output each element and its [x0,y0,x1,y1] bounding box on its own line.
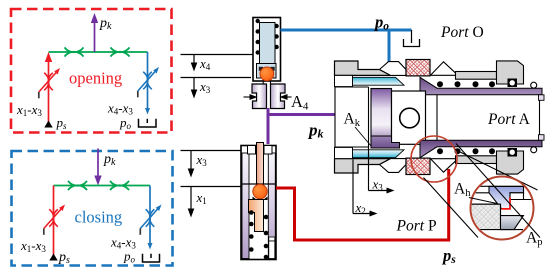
ref line x1 (bottom valve) [181,186,243,188]
housing block far right top [497,61,524,84]
wire purple pk down-arrow (closing) [97,149,99,179]
source triangle ps (closing) [49,254,57,261]
svg-text:x2: x2 [355,200,366,216]
purple band bottom with wedge [420,140,542,158]
bore top line [335,87,369,147]
housing arm bottom-right [456,156,497,164]
ball top right [531,82,537,88]
white band left top [335,75,353,86]
top valve housing [253,18,281,82]
wire blue po branch (closing) [149,186,151,246]
tank symbol (closing) [143,254,160,262]
leader to Ap across magnifier [456,144,540,238]
svg-text:closing: closing [75,208,123,227]
A4 arrows [244,96,251,98]
bottom valve pin rod [257,143,264,185]
bottom valve top plugs [248,146,256,155]
wire green manifold (opening) [49,51,148,53]
mag seat step lines [500,204,502,215]
svg-text:pk: pk [99,16,112,32]
housing arm top-right [456,72,497,80]
ball bottom right [531,147,537,153]
zoom cone tangent lower [424,178,479,238]
retainer square bottom [508,148,518,157]
bottom valve mid line [242,183,275,185]
svg-text:x3: x3 [196,152,208,168]
svg-text:x1-x3: x1-x3 [20,238,46,254]
svg-text:po: po [373,13,389,33]
svg-text:A4: A4 [291,92,309,113]
cup shoulder marks [259,67,263,71]
top valve ball [260,67,274,81]
housing gray bottom-left [335,159,391,173]
ref x3 (main) [368,147,370,191]
seal crosshatch top [406,60,430,76]
mag seat line right [524,199,534,201]
white band left bottom [335,147,353,158]
mag poppet tip blue funnel [489,186,524,208]
bottom valve left wall [242,153,249,259]
spring dots top (main) [437,81,495,87]
svg-text:Ah: Ah [454,181,471,200]
orifice (fixed) green right (opening) [111,47,130,56]
tank symbol at po [411,30,413,39]
seat chamfer white top [380,62,407,76]
mag step white block [510,193,524,200]
bottom valve ball [253,184,267,198]
svg-text:x1-x3: x1-x3 [16,102,42,118]
svg-text:pk: pk [103,152,116,168]
svg-text:x1: x1 [196,190,207,206]
main body left edge [334,62,336,173]
cyan strip top [353,77,405,85]
housing block far right bottom [497,151,524,174]
bottom valve spring dots [249,210,268,259]
band right step top [539,95,545,101]
bore wall line [368,87,370,147]
bottom valve housing shell [241,146,276,260]
spring dots bottom (main) [437,148,495,154]
seat chamfer white bottom [380,159,407,173]
bottom valve right wall lower white [269,241,275,259]
svg-text:ps: ps [58,250,70,266]
wire blue po branch (opening) [147,52,149,110]
poppet stem purple column [371,89,392,148]
purple band top with wedge [420,77,542,95]
ref line x3 (bottom valve) [181,150,243,152]
svg-text:ps: ps [441,246,456,266]
band right step bottom [539,135,545,141]
mag gray wedge [501,216,524,230]
throat walls [263,78,270,84]
leader Ak [355,127,372,147]
variable orifice blue (closing) [140,208,158,229]
housing gray top-left [335,61,391,75]
bottom valve right wall break [269,237,275,241]
ref line x3 (top valve) [181,77,252,79]
poppet circle hole [400,108,420,128]
chamfer triangle right of seal bottom [431,159,459,173]
svg-text:opening: opening [69,69,122,88]
leader Ah [469,198,497,204]
variable orifice blue (opening) [138,71,156,92]
svg-text:Port A: Port A [487,111,531,128]
top valve chamber [260,23,276,66]
mag top band [470,186,524,193]
ref x2 (main) [352,160,354,214]
orifice (fixed) green left (opening) [65,47,84,56]
bottom valve right wall [268,153,275,259]
orifice (fixed) green right (closing) [110,181,129,190]
svg-text:x3: x3 [372,177,384,193]
wire blue po thick [281,29,412,32]
svg-text:Ap: Ap [526,230,542,249]
small red circle on valve [411,136,457,182]
seat block right (A4) [271,84,286,109]
svg-text:Ak: Ak [344,111,361,130]
big magnifier circle [471,177,534,240]
Port A left boundary [436,95,438,140]
wire green manifold (closing) [54,185,151,187]
svg-text:Port P: Port P [396,218,437,235]
orifice (fixed) green left (closing) [68,181,87,190]
cyan strip bottom [353,150,405,158]
seat block left (A4) [252,84,267,109]
closing dashed frame [12,151,173,266]
bottom valve plunger [249,200,264,232]
svg-text:po: po [119,115,132,131]
wire purple pk thick [267,108,270,144]
mag seat line left [470,203,501,205]
tank symbol (opening) [139,119,157,127]
zoom cone tangent upper [455,150,538,191]
wire red ps thick [276,169,449,240]
wire red ps branch (opening) [48,58,50,122]
svg-text:po: po [123,249,136,265]
svg-text:x3: x3 [199,79,211,95]
mag crosshatch seat [468,204,501,229]
poppet body white [392,91,426,144]
wire red ps branch (closing) [53,186,55,256]
seal crosshatch bottom [406,158,430,174]
source triangle ps (opening) [44,121,52,128]
purple seat wedge bottom-left [371,136,400,148]
svg-text:pk: pk [307,121,324,141]
variable orifice red (closing) [44,208,62,229]
svg-text:x4: x4 [199,56,211,72]
bottom valve seat corner marks [253,197,268,201]
chamfer triangle right of seal top [431,62,459,76]
port A right wall [539,95,541,140]
top valve spring dots [256,19,279,55]
variable orifice red (opening) [39,72,57,93]
retainer square top [508,79,518,88]
svg-text:Port O: Port O [440,24,484,41]
mag red edge highlight [502,198,511,209]
ref line x4 (top valve) [181,54,254,56]
svg-text:ps: ps [56,115,68,131]
opening dashed frame [11,9,172,133]
wire purple pk up-arrow (opening) [94,21,96,52]
mag bottom line [501,229,524,231]
